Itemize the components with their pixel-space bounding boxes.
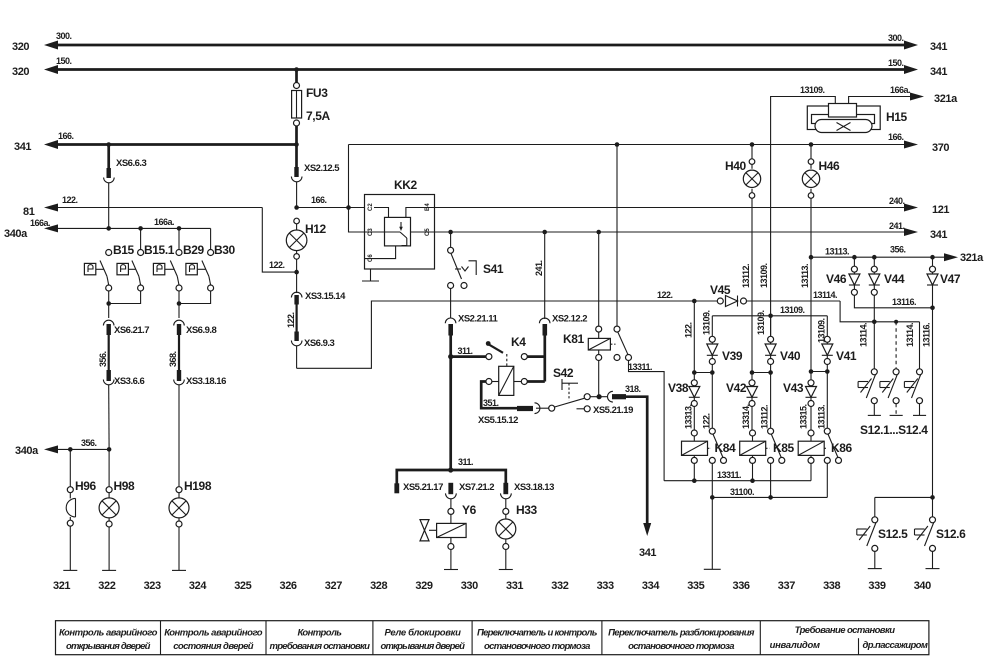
connector XS2.12.5 <box>291 145 302 208</box>
svg-text:370: 370 <box>932 142 949 154</box>
wire 13109 top <box>771 97 836 340</box>
junction K84 coil bottom <box>692 478 697 483</box>
svg-text:31100.: 31100. <box>730 487 754 497</box>
wire 166 to KK2 C2 <box>297 207 365 209</box>
svg-text:333: 333 <box>597 580 614 592</box>
svg-text:320: 320 <box>12 66 29 78</box>
buzzer H15 <box>807 104 880 133</box>
svg-text:XS2.12.2: XS2.12.2 <box>552 314 587 325</box>
svg-text:324: 324 <box>189 580 207 592</box>
relay KK2 <box>365 195 435 270</box>
svg-text:H15: H15 <box>886 110 908 124</box>
ground KK2 <box>362 269 379 281</box>
wire bus 300 <box>44 41 918 50</box>
svg-text:C3: C3 <box>368 228 374 236</box>
junction FU3 top on 150 bus <box>294 67 299 72</box>
junction H12 bottom <box>294 270 299 275</box>
junction H98 <box>107 447 112 452</box>
svg-text:13112.: 13112. <box>741 264 751 288</box>
svg-text:323: 323 <box>144 580 161 592</box>
relay K81 contact <box>610 145 631 361</box>
svg-text:341: 341 <box>930 229 947 241</box>
diode V41 <box>817 316 833 372</box>
svg-text:V42: V42 <box>726 381 747 395</box>
wire K86sw feed <box>826 372 828 429</box>
junction 122 branch <box>692 299 697 304</box>
table cell 4 <box>381 628 466 653</box>
relay K86 contact <box>824 428 841 497</box>
wire 166a left <box>44 224 211 249</box>
svg-text:Контроль аварийного: Контроль аварийного <box>164 628 263 639</box>
relay K85 coil <box>740 430 766 481</box>
wire 356 bottom <box>44 445 109 453</box>
switch B15.1 <box>117 250 144 292</box>
switch S12.5 <box>857 497 882 568</box>
table cell 1 <box>59 628 158 653</box>
wire 13311 bottom <box>664 480 811 482</box>
svg-text:13114.: 13114. <box>859 323 869 347</box>
svg-text:318.: 318. <box>625 384 641 394</box>
connector XS2.12.2 <box>539 230 550 382</box>
svg-text:122.: 122. <box>269 260 285 270</box>
svg-text:H46: H46 <box>819 159 841 173</box>
svg-text:334: 334 <box>642 580 660 592</box>
relay K84 coil <box>682 430 708 481</box>
switch B15 <box>84 228 179 291</box>
svg-text:V45: V45 <box>710 283 731 297</box>
junction V44 bottom <box>872 320 877 325</box>
svg-text:13109.: 13109. <box>702 310 712 335</box>
svg-text:XS3.18.16: XS3.18.16 <box>186 376 226 387</box>
wire 240 to 121 <box>435 204 919 212</box>
svg-text:356.: 356. <box>98 351 108 367</box>
lamp H46 <box>802 142 819 371</box>
svg-text:XS7.21.2: XS7.21.2 <box>459 482 494 493</box>
svg-text:341: 341 <box>930 66 947 78</box>
junction tie V42 <box>750 370 755 375</box>
wire K84sw feed <box>711 373 713 429</box>
svg-text:336: 336 <box>733 580 750 592</box>
wire 31100 <box>712 496 827 498</box>
svg-text:V41: V41 <box>836 349 857 363</box>
svg-text:13315.: 13315. <box>799 404 809 429</box>
svg-text:122.: 122. <box>702 413 712 429</box>
connector XS6.21.7 <box>103 320 114 371</box>
svg-text:166a.: 166a. <box>890 85 910 95</box>
svg-text:XS6.6.3: XS6.6.3 <box>116 158 147 169</box>
svg-text:H96: H96 <box>75 479 97 493</box>
wire bus 166 left <box>44 140 297 149</box>
svg-text:K84: K84 <box>715 441 737 455</box>
svg-text:121: 121 <box>932 204 949 216</box>
table cell 2 <box>164 628 263 653</box>
junction H46 356 <box>809 255 814 260</box>
svg-text:326: 326 <box>280 580 297 592</box>
svg-text:H33: H33 <box>516 503 538 517</box>
svg-text:V47: V47 <box>940 272 961 286</box>
svg-text:H98: H98 <box>114 479 136 493</box>
svg-text:C5: C5 <box>425 228 431 236</box>
connector XS3.15.14 <box>291 272 302 333</box>
svg-text:338: 338 <box>823 580 840 592</box>
svg-text:XS2.21.11: XS2.21.11 <box>458 314 499 325</box>
wire B15 pair join <box>109 291 141 318</box>
junction S12.2 branch <box>894 320 898 324</box>
wire 241 to 341 <box>435 228 919 236</box>
connector XS5.21.17 <box>394 483 399 493</box>
svg-text:остановочного тормоза: остановочного тормоза <box>484 641 590 652</box>
junction K85 contact bottom <box>768 495 773 500</box>
lamp H33 <box>496 508 516 569</box>
svg-text:13114.: 13114. <box>813 290 837 300</box>
diode V42 <box>747 373 758 431</box>
svg-text:166.: 166. <box>888 132 904 142</box>
svg-text:S12.5: S12.5 <box>878 527 908 541</box>
wire 166a to 321a <box>849 93 924 106</box>
wire 13109 tie <box>712 315 827 317</box>
relay K84 contact <box>708 428 727 497</box>
svg-text:K85: K85 <box>773 441 795 455</box>
svg-text:требования остановки: требования остановки <box>270 641 371 652</box>
wire 311 bottom branch <box>397 470 506 484</box>
svg-text:341: 341 <box>14 141 31 153</box>
relay K4 <box>451 341 545 395</box>
connector XS6.9.3 <box>291 332 302 369</box>
svg-text:166.: 166. <box>311 195 327 205</box>
diode V45 <box>694 296 840 307</box>
table cell 3 <box>270 628 371 653</box>
svg-text:13311.: 13311. <box>628 362 652 372</box>
lamp H40 <box>743 142 760 372</box>
svg-text:S42: S42 <box>553 366 574 380</box>
svg-text:Реле блокировки: Реле блокировки <box>385 628 462 639</box>
switch B29 <box>153 250 182 292</box>
connector XS3.18.16 <box>174 370 185 487</box>
junction B15 <box>106 226 111 231</box>
svg-text:337: 337 <box>778 580 795 592</box>
svg-text:321a: 321a <box>934 93 958 105</box>
svg-text:13113.: 13113. <box>817 405 827 429</box>
svg-text:V39: V39 <box>722 349 743 363</box>
svg-text:339: 339 <box>868 580 885 592</box>
wire K85sw feed <box>770 373 772 429</box>
lamp H12 <box>286 218 307 272</box>
connector XS5.15.12 <box>517 403 549 414</box>
svg-text:332: 332 <box>551 580 568 592</box>
junction tie V40 <box>768 370 773 375</box>
diode V46 <box>849 257 933 308</box>
relay K81 coil <box>588 230 610 397</box>
svg-text:XS6.21.7: XS6.21.7 <box>114 325 149 336</box>
svg-text:321: 321 <box>53 580 70 592</box>
junction B29 join <box>177 301 182 306</box>
svg-text:150.: 150. <box>888 58 904 68</box>
svg-text:13109.: 13109. <box>756 310 766 335</box>
table cell 7 <box>770 625 928 651</box>
connector XS7.21.2 <box>446 483 457 509</box>
svg-text:356.: 356. <box>890 245 906 255</box>
svg-text:XS6.9.3: XS6.9.3 <box>304 338 335 349</box>
junction 318 <box>597 394 602 399</box>
junction 166/H12 <box>294 205 299 210</box>
junction B15 join <box>106 301 111 306</box>
junction V47 S12.6 <box>930 495 935 500</box>
svg-text:13116.: 13116. <box>922 323 932 347</box>
junction V44 top <box>872 255 877 260</box>
svg-text:311.: 311. <box>458 346 473 356</box>
svg-text:13116.: 13116. <box>892 297 916 307</box>
wire K4 coil to XS5.15.12 <box>481 382 517 409</box>
svg-text:KK2: KK2 <box>394 178 418 192</box>
diode V40 <box>756 310 776 372</box>
junction B29 <box>177 226 182 231</box>
svg-text:368.: 368. <box>168 351 178 367</box>
connector XS6.6.3 <box>104 145 115 229</box>
wire 356 to 321a <box>811 253 958 261</box>
svg-text:XS3.6.6: XS3.6.6 <box>114 376 145 387</box>
svg-text:K4: K4 <box>511 335 526 349</box>
svg-text:241.: 241. <box>889 221 905 231</box>
wire 122 down <box>693 301 695 373</box>
junction K85 coil bottom <box>750 478 755 483</box>
switch S42 <box>549 379 599 412</box>
svg-text:341: 341 <box>930 41 947 53</box>
junction XS6.6.3 top <box>106 142 111 147</box>
connector XS3.18.13 <box>501 483 512 509</box>
wire 166 right to 370 <box>349 141 919 149</box>
svg-text:341: 341 <box>639 547 656 559</box>
svg-text:C2: C2 <box>368 203 374 211</box>
switch S12.6 <box>915 517 940 569</box>
svg-text:340a: 340a <box>15 445 39 457</box>
svg-text:340: 340 <box>914 580 931 592</box>
svg-text:K86: K86 <box>831 441 853 455</box>
svg-text:S41: S41 <box>483 262 504 276</box>
svg-text:B29: B29 <box>183 243 205 257</box>
svg-text:V44: V44 <box>884 272 905 286</box>
svg-text:инвалидом: инвалидом <box>770 640 820 651</box>
lamp H198 <box>169 487 189 571</box>
connector XS2.21.11 <box>445 318 456 471</box>
wire S12.5 S12.6 feed <box>875 496 933 498</box>
ground bar 335 <box>704 497 721 569</box>
diode V43 <box>806 372 817 431</box>
wire 122 route to right <box>297 301 695 368</box>
svg-text:H40: H40 <box>725 159 747 173</box>
svg-text:S12.1...S12.4: S12.1...S12.4 <box>860 423 928 437</box>
wire tie A <box>694 372 712 374</box>
wire B29 pair join <box>179 291 211 318</box>
junction 13116/V47 <box>930 306 935 311</box>
svg-text:330: 330 <box>461 580 478 592</box>
svg-text:B15: B15 <box>113 243 135 257</box>
svg-text:V40: V40 <box>780 349 801 363</box>
svg-text:открывания дверей: открывания дверей <box>381 641 466 652</box>
svg-text:XS3.15.14: XS3.15.14 <box>305 291 346 302</box>
diode V47 <box>927 257 938 520</box>
svg-text:Переключатель и контроль: Переключатель и контроль <box>477 628 598 639</box>
svg-text:V43: V43 <box>783 381 804 395</box>
junction K81 feed <box>615 142 620 147</box>
switch S12.1 <box>858 322 881 416</box>
diode V38 <box>689 373 700 431</box>
svg-text:351.: 351. <box>483 398 499 408</box>
junction B15.1 <box>138 226 143 231</box>
svg-text:122.: 122. <box>684 322 694 338</box>
svg-text:13112.: 13112. <box>760 405 770 429</box>
svg-text:300.: 300. <box>888 33 904 43</box>
svg-text:13113.: 13113. <box>825 247 849 257</box>
svg-text:325: 325 <box>234 580 251 592</box>
wire 13114 S12 feed <box>840 301 919 322</box>
relay K86 coil <box>798 430 824 481</box>
svg-text:311.: 311. <box>458 457 473 467</box>
svg-text:B4: B4 <box>425 203 431 211</box>
wire bus 150 <box>44 65 918 74</box>
svg-text:300.: 300. <box>56 31 72 41</box>
svg-text:335: 335 <box>687 580 704 592</box>
svg-text:13109.: 13109. <box>759 263 769 288</box>
svg-text:Контроль: Контроль <box>298 628 343 639</box>
svg-text:13311.: 13311. <box>717 470 741 480</box>
svg-text:13109.: 13109. <box>780 305 805 315</box>
junction tie V41 <box>825 369 830 374</box>
table cell 5 <box>477 628 598 653</box>
svg-text:B30: B30 <box>214 243 236 257</box>
switch S12.2 dashed <box>880 322 903 416</box>
svg-text:Y6: Y6 <box>462 503 477 517</box>
junction K4 branch <box>448 354 453 359</box>
wire 13311 from K81 <box>629 361 665 481</box>
svg-text:Контроль аварийного: Контроль аварийного <box>59 628 158 639</box>
svg-text:K81: K81 <box>563 332 585 346</box>
svg-text:открывания дверей: открывания дверей <box>66 641 151 652</box>
table frame <box>56 621 929 655</box>
switch S41 <box>448 230 477 318</box>
svg-text:XS5.21.17: XS5.21.17 <box>403 482 443 493</box>
svg-text:Переключатель разблокирования: Переключатель разблокирования <box>608 628 755 639</box>
valve Y6 <box>420 508 466 569</box>
junction Y6 H33 <box>448 467 453 472</box>
wire tie C <box>811 371 827 373</box>
svg-text:13313.: 13313. <box>684 404 694 429</box>
svg-text:81: 81 <box>23 206 35 218</box>
svg-text:состояния дверей: состояния дверей <box>173 641 254 652</box>
svg-text:FU3: FU3 <box>306 86 328 100</box>
svg-text:240.: 240. <box>889 196 905 206</box>
svg-text:остановочного тормоза: остановочного тормоза <box>628 641 734 652</box>
svg-text:XS5.15.12: XS5.15.12 <box>478 415 518 426</box>
svg-text:S12.6: S12.6 <box>936 527 966 541</box>
svg-text:H12: H12 <box>305 222 327 236</box>
svg-text:13314.: 13314. <box>741 404 751 429</box>
svg-text:XS2.12.5: XS2.12.5 <box>304 163 340 174</box>
svg-text:166.: 166. <box>58 131 74 141</box>
svg-text:C6: C6 <box>368 254 374 262</box>
relay K85 contact <box>766 428 785 497</box>
junction 348/207 <box>346 205 351 210</box>
svg-text:329: 329 <box>415 580 432 592</box>
junction tie V39 <box>710 370 715 375</box>
connector XS6.9.8 <box>174 320 185 371</box>
svg-text:328: 328 <box>370 580 387 592</box>
svg-text:V46: V46 <box>826 272 847 286</box>
junction ground K84 <box>710 495 715 500</box>
wire 122 left arrow to 81 <box>44 204 297 273</box>
svg-text:327: 327 <box>325 580 342 592</box>
svg-text:356.: 356. <box>81 438 97 448</box>
svg-text:150.: 150. <box>56 56 72 66</box>
junction V47 top <box>930 255 935 260</box>
table cell 6 <box>608 628 755 653</box>
svg-text:320: 320 <box>12 41 29 53</box>
svg-text:122.: 122. <box>286 312 296 328</box>
svg-text:13113.: 13113. <box>800 264 810 288</box>
svg-text:B15.1: B15.1 <box>144 243 175 257</box>
connector 318 line <box>599 391 651 536</box>
svg-text:XS6.9.8: XS6.9.8 <box>186 325 217 336</box>
svg-text:241.: 241. <box>534 260 544 276</box>
switch S12.4 <box>904 322 926 416</box>
svg-text:122.: 122. <box>62 195 78 205</box>
svg-text:13109.: 13109. <box>800 85 825 95</box>
svg-text:Требование остановки: Требование остановки <box>795 625 896 636</box>
lamp H98 <box>99 449 119 570</box>
svg-text:V38: V38 <box>668 381 689 395</box>
fuse FU3 <box>292 70 302 147</box>
svg-text:13114.: 13114. <box>905 323 915 347</box>
svg-text:331: 331 <box>506 580 523 592</box>
horn H96 <box>63 449 77 570</box>
junction tie V43 <box>809 369 814 374</box>
svg-text:166a.: 166a. <box>154 217 174 227</box>
column numbers <box>53 580 931 592</box>
junction tie V38 <box>692 370 697 375</box>
svg-text:XS5.21.19: XS5.21.19 <box>593 405 633 416</box>
junction H96 <box>68 447 73 452</box>
diode V44 <box>869 257 880 322</box>
svg-text:122.: 122. <box>657 290 673 300</box>
svg-text:XS3.18.13: XS3.18.13 <box>514 482 554 493</box>
svg-text:H198: H198 <box>184 479 212 493</box>
svg-text:322: 322 <box>98 580 115 592</box>
svg-text:7,5A: 7,5A <box>306 109 330 123</box>
svg-text:166a.: 166a. <box>30 218 50 228</box>
svg-text:др.пассажиром: др.пассажиром <box>863 640 928 651</box>
svg-text:340a: 340a <box>4 228 28 240</box>
connector XS3.6.6 <box>103 370 114 449</box>
switch B30 <box>186 250 214 292</box>
junction 13109/V40 <box>768 314 773 319</box>
wire tie B <box>752 372 771 374</box>
junction V46 top <box>852 255 857 260</box>
diode V39 <box>702 310 718 372</box>
junction FU3 bottom on 166 bus <box>294 142 299 147</box>
svg-text:321a: 321a <box>960 252 984 264</box>
wire corner 166 down to KK2 C3 <box>349 145 365 233</box>
